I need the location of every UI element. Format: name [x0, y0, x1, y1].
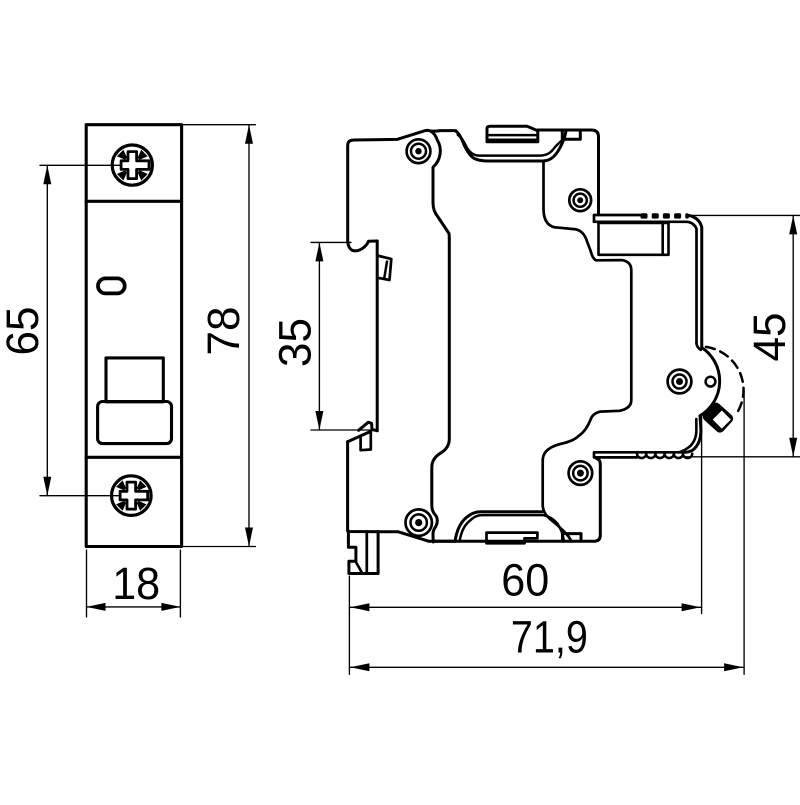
dimension 71,9 arrow right	[724, 663, 743, 671]
toggle lever upper part (front view)	[106, 358, 163, 402]
dimension 18 extension line right	[179, 550, 181, 617]
lower DIN clip hook (side view left)	[359, 422, 378, 431]
upper-right screw (side view)	[569, 189, 591, 211]
upper shelf teeth	[641, 213, 689, 218]
front view top separator line	[86, 200, 181, 203]
dimension 65 arrow up	[43, 165, 51, 184]
side view lower-left edge	[348, 442, 455, 542]
svg-text:71,9: 71,9	[511, 612, 588, 663]
dimension 35 arrow up	[315, 242, 323, 261]
dimension 78 extension line bottom	[183, 546, 255, 548]
internal contour from recess to terminal ledge and down to bottom arch (side view)	[543, 161, 632, 541]
side view: top-left slanted top edge and left upper edge	[348, 130, 431, 241]
dimension 60 extension right	[701, 415, 703, 614]
dimension 65 arrow down	[43, 477, 51, 496]
dimension 45 extension bottom	[683, 456, 800, 458]
dimension 71,9 arrow left	[350, 663, 369, 671]
pivot pin circle (side view)	[706, 377, 716, 387]
lower shelf scallops	[637, 454, 692, 458]
lobe to lower shelf inner curve (side view)	[680, 419, 696, 452]
upper terminal block (side view)	[599, 223, 669, 255]
dimension 78 arrow down	[245, 528, 253, 547]
side view: top edge from peak to handle recess	[431, 129, 456, 133]
DIN rail hook bump (side view left)	[348, 241, 378, 251]
toggle lever lower part (front view)	[98, 402, 172, 444]
dimension 35 extension bottom	[311, 429, 377, 431]
dimension 60 arrow right	[682, 603, 701, 611]
dimension 35 arrow down	[315, 411, 323, 430]
lower right screw (side view)	[569, 461, 593, 485]
toggle handle base lines (side view)	[487, 134, 538, 137]
dimension 65 line	[46, 165, 48, 495]
dimension 18 arrow right	[161, 603, 180, 611]
side view: screw boss arc around upper-left screw	[431, 131, 450, 239]
lower right body tab (side view)	[434, 458, 600, 541]
step notch rectangle top right (side view)	[562, 131, 580, 140]
lower serrated shelf (side view)	[594, 452, 684, 457]
bottom-left screw (side view)	[406, 509, 432, 535]
dimension 35 line	[318, 242, 320, 430]
svg-text:65: 65	[0, 307, 48, 356]
svg-text:60: 60	[501, 555, 549, 606]
indicator window slot (front view)	[98, 278, 125, 293]
inner wall line bend to lobe (side view)	[697, 344, 701, 350]
top terminal screw (front view)	[112, 145, 152, 185]
lobe to lower shelf outer curve (side view)	[684, 416, 701, 453]
upper-left screw (side view)	[407, 139, 431, 163]
upper serrated shelf (side view)	[594, 215, 641, 222]
clamp tab inner rotated square (side view)	[713, 411, 731, 429]
bottom terminal screw (front view)	[112, 476, 152, 516]
DIN rail surface vertical (side view left)	[376, 241, 379, 431]
dimension 18 line	[87, 606, 181, 608]
dimension 60 arrow left	[350, 603, 369, 611]
dimension 60 line	[349, 606, 701, 608]
dimension 60 extension left	[348, 576, 350, 614]
front view body outline	[86, 125, 181, 547]
toggle handle (side view)	[487, 126, 538, 141]
dimension 71,9 extension left (shared)	[348, 614, 350, 675]
dimension 65 extension line top	[40, 164, 121, 166]
dimension 18 extension line left	[86, 550, 88, 617]
rotary lobe solid arc (side view)	[700, 348, 720, 416]
clamp tab outer rotated square (side view)	[702, 402, 733, 433]
dimension 18 arrow left	[87, 603, 106, 611]
svg-text:35: 35	[269, 318, 320, 367]
bottom arch inner (side view)	[460, 515, 565, 541]
bottom arch tab (side view)	[487, 533, 538, 544]
bottom step rectangle (side view)	[563, 534, 582, 541]
lobe screw (side view)	[668, 370, 692, 394]
DIN rail clip tab (side view left)	[377, 256, 391, 281]
dimension 45 line	[792, 215, 794, 456]
dimension 78 extension line top	[183, 124, 255, 126]
dashed travel arc (side view)	[706, 347, 744, 414]
handle recess outer arc (side view)	[456, 131, 566, 161]
svg-text:18: 18	[112, 558, 160, 609]
dimension 45 arrow up	[789, 215, 797, 234]
svg-text:78: 78	[198, 307, 249, 356]
DIN foot (side view bottom left)	[348, 531, 378, 574]
svg-text:45: 45	[744, 313, 795, 362]
dimension 45 extension top	[687, 214, 800, 216]
front view bottom separator line	[86, 456, 181, 459]
side view: mid-body left edge	[432, 239, 450, 543]
bottom arch outer (side view)	[455, 512, 542, 542]
dimension 71,9 line	[349, 666, 744, 668]
dimension 65 extension line bottom	[40, 495, 120, 497]
handle recess inner arc (side view)	[458, 135, 564, 156]
side view: top edge right of handle with step notch	[538, 130, 599, 215]
dimension 78 line	[248, 125, 250, 547]
dimension 71,9 extension right	[743, 391, 745, 674]
upper terminal block inner right line	[661, 223, 664, 255]
dimension 78 arrow up	[245, 125, 253, 144]
dimension 45 arrow down	[789, 438, 797, 457]
upper shelf bottom line	[594, 222, 697, 344]
upper shelf right outer curve into right wall	[689, 216, 702, 348]
dimension 35 extension top	[311, 241, 351, 243]
